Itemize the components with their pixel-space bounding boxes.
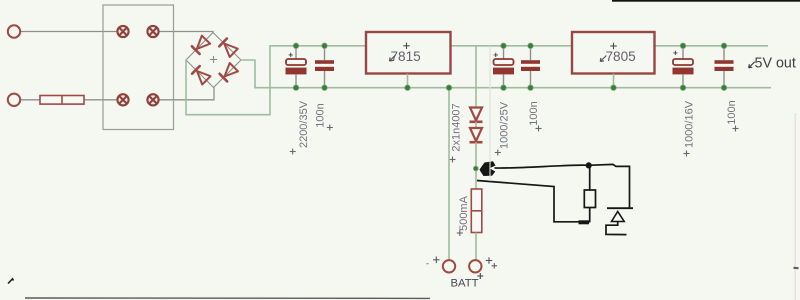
wire: top AC input to transformer and bridge <box>20 31 122 33</box>
C4 label + mark <box>536 126 542 132</box>
svg-text:-: - <box>426 259 429 269</box>
C2 label + mark <box>327 125 333 131</box>
hand-drawn transistor: top plate <box>607 207 633 209</box>
artifact: faint vertical ghost line <box>489 46 491 181</box>
hand-drawn wire: tap to transistor base node <box>495 165 587 168</box>
artifact: pen tick bottom-left <box>8 279 14 284</box>
capacitor C1 2200uF/35V electrolytic <box>286 46 307 88</box>
junction: C5 bottom <box>680 85 686 91</box>
connector X1-2 (AC in bottom) <box>8 94 20 106</box>
junction: 7805 gnd on ground rail <box>611 85 617 91</box>
capacitor C5 1000uF/16V electrolytic <box>673 46 694 88</box>
capacitor C4 100n <box>521 46 540 88</box>
bridge center + mark <box>210 56 217 63</box>
artifact: dark line along bottom edge <box>25 297 430 299</box>
junction: C3 bottom <box>501 85 507 91</box>
hand-drawn wire: tap bottom line to resistor foot <box>477 181 590 222</box>
diode D1 1N4007 <box>470 108 483 122</box>
transformer primary terminal top-left <box>117 26 128 37</box>
svg-text:500mA: 500mA <box>458 195 470 231</box>
svg-text:5V out: 5V out <box>755 56 796 72</box>
wire: unregulated +18V rail to 7815 input <box>270 45 366 47</box>
svg-text:1000/16V: 1000/16V <box>684 100 696 148</box>
capacitor C2 100n <box>315 46 334 88</box>
artifact: small dark dash on right edge line <box>794 267 799 270</box>
bridge rectifier B1 diamond outline <box>186 33 241 88</box>
junction: BATT branch on ground rail <box>446 85 452 91</box>
terminal BATT+ pad <box>469 260 481 272</box>
transformer secondary terminal top-right <box>147 26 158 37</box>
C6 label + mark <box>733 126 739 132</box>
junction: C6 bottom <box>721 85 727 91</box>
artifact: faint vertical line near right edge <box>794 113 796 300</box>
hand-drawn switch blob at charger tap <box>480 161 496 176</box>
bridge diode bottom-left (cathode to + node) <box>192 66 210 84</box>
diode D2 1N4007 <box>470 128 483 142</box>
svg-text:2x1n4007: 2x1n4007 <box>451 103 463 151</box>
junction: C2 top <box>322 43 328 49</box>
wire: ground rail to BATT- terminal <box>448 88 450 260</box>
7815 origin + mark <box>403 43 410 50</box>
wire: 7805 ground pin <box>613 74 615 88</box>
regulator IC2 7805 <box>572 32 655 74</box>
junction: charger tap node <box>473 166 478 171</box>
svg-text:+: + <box>493 50 498 60</box>
bridge diode top-left (cathode to + node) <box>192 36 210 54</box>
svg-text:100n: 100n <box>528 101 540 125</box>
hand-drawn solder blob <box>579 220 590 224</box>
diode label + mark <box>450 157 456 163</box>
hand-drawn resistor body <box>584 190 595 208</box>
junction: 7815 gnd on ground rail <box>405 85 411 91</box>
C1 label + mark <box>290 149 296 155</box>
transformer secondary terminal bottom-right <box>147 94 158 105</box>
junction: C4 bottom <box>528 85 534 91</box>
wire: 7815 ground pin <box>407 74 409 88</box>
7805 origin + mark <box>610 43 617 50</box>
svg-text:7805: 7805 <box>606 49 636 64</box>
capacitor C3 1000uF/25V electrolytic <box>493 46 514 88</box>
svg-text:100n: 100n <box>315 103 327 127</box>
7815 origin arrow <box>390 55 396 61</box>
wire: charge branch from 15V rail to D1 <box>475 46 477 108</box>
C3 label + mark <box>495 150 501 156</box>
svg-text:BATT: BATT <box>451 278 479 290</box>
bridge diode top-right <box>219 39 238 58</box>
junction: C2 bottom <box>322 85 328 91</box>
svg-text:+: + <box>673 48 678 58</box>
regulator IC1 7815 <box>366 32 451 74</box>
transformer primary terminal bottom-left <box>117 94 128 105</box>
junction: C3 top <box>501 43 507 49</box>
svg-text:+: + <box>288 49 293 59</box>
wire: 7815 output rail to 7805 input <box>451 45 573 47</box>
wire: 7805 output rail (5V) <box>655 45 769 47</box>
wire: bridge + output up to unregulated rail <box>186 46 270 115</box>
hand-drawn wire: node to collector drop <box>592 164 630 208</box>
hand-drawn transistor: triangle <box>612 212 625 222</box>
svg-text:100n: 100n <box>726 100 738 124</box>
wire: D1 to D2 <box>475 122 477 128</box>
hand-drawn junction dot <box>586 162 592 168</box>
wire: D2 to fuse F2 through tap node <box>475 142 477 189</box>
bridge diode bottom-right <box>220 63 238 81</box>
junction: C4 top <box>528 43 534 49</box>
junction: C6 top <box>721 43 727 49</box>
hand-drawn wire: node down to resistor <box>589 168 591 190</box>
hand-drawn transistor: emitter hook <box>606 222 627 235</box>
7805 origin arrow <box>600 56 606 62</box>
5V out origin arrow <box>749 62 755 68</box>
connector X1-1 (AC in top) <box>8 25 20 37</box>
terminal BATT- pad <box>443 260 455 272</box>
artifact: black line along top edge <box>612 0 800 2</box>
capacitor C6 100n <box>715 46 734 88</box>
fuse F2 500mA <box>471 189 482 233</box>
C5 label + mark <box>684 151 690 157</box>
wire: bridge - output to ground rail <box>241 60 255 88</box>
hand-drawn wire: resistor to bottom line <box>589 208 591 223</box>
wire: ground rail <box>255 87 771 89</box>
fuse F1 (mains fuse) <box>40 96 84 105</box>
wire: fuse to BATT+ terminal <box>475 233 477 261</box>
junction: C1 bottom <box>293 85 299 91</box>
F2 label + mark <box>457 230 463 236</box>
junction: C5 top <box>680 43 686 49</box>
svg-text:1000/25V: 1000/25V <box>499 101 511 149</box>
wire: bottom AC input through fuse to transformer and bridge <box>20 99 122 101</box>
svg-text:2200/35V: 2200/35V <box>298 100 310 148</box>
transformer TR1 box <box>103 5 174 130</box>
junction: C1 top <box>293 43 299 49</box>
